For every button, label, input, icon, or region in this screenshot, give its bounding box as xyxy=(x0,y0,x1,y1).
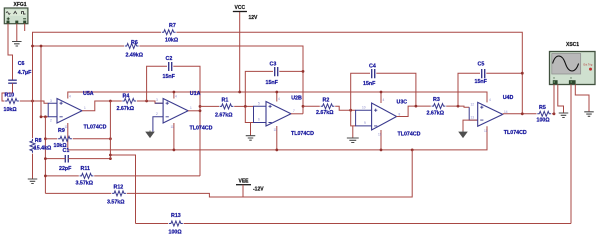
wire U3C inverting feed xyxy=(351,110,356,126)
wire R4 to U1A noninverting input xyxy=(137,101,163,103)
wire U4D inverting input to ground xyxy=(469,107,478,120)
svg-text:C1: C1 xyxy=(63,148,70,154)
svg-text:12V: 12V xyxy=(249,15,259,21)
svg-text:4.7µF: 4.7µF xyxy=(18,70,32,76)
wire U5A output node vertical xyxy=(109,101,111,159)
wire VEE distribution rail xyxy=(68,123,487,150)
svg-text:R3: R3 xyxy=(433,97,440,103)
wire R11 row xyxy=(45,175,78,177)
junction R4 row xyxy=(109,100,112,103)
svg-text:Ext Trig: Ext Trig xyxy=(584,62,593,66)
junction VCC rail xyxy=(173,91,176,94)
wire U4D output to R5 xyxy=(503,113,537,115)
svg-text:VCC: VCC xyxy=(235,5,246,11)
svg-text:R4: R4 xyxy=(123,94,130,100)
svg-text:C5: C5 xyxy=(478,61,485,67)
svg-text:2.67kΩ: 2.67kΩ xyxy=(427,111,445,117)
svg-text:2.67kΩ: 2.67kΩ xyxy=(117,106,135,112)
junction R5 right xyxy=(553,112,556,115)
junction C2 left xyxy=(145,100,148,103)
op-amp U5A xyxy=(57,99,82,124)
svg-text:TL074CD: TL074CD xyxy=(291,131,314,137)
junction U4D output xyxy=(521,112,524,115)
resistor R1 xyxy=(220,104,234,109)
svg-text:2.67kΩ: 2.67kΩ xyxy=(316,110,334,116)
svg-text:U1A: U1A xyxy=(190,91,201,97)
svg-text:15nF: 15nF xyxy=(266,80,279,86)
svg-text:3: 3 xyxy=(156,98,158,102)
svg-text:100Ω: 100Ω xyxy=(537,118,551,124)
wire U5A output to R4 row xyxy=(82,101,122,111)
wire C6 to R10 xyxy=(2,83,13,101)
ground trident scope A xyxy=(559,113,569,118)
svg-text:7: 7 xyxy=(293,109,295,113)
svg-text:100Ω: 100Ω xyxy=(169,230,183,235)
svg-text:1: 1 xyxy=(84,106,86,110)
svg-text:15.4kΩ: 15.4kΩ xyxy=(34,145,52,151)
resistor R9 xyxy=(58,136,72,141)
svg-text:U4D: U4D xyxy=(503,95,514,101)
ground trident below U2B xyxy=(250,123,252,136)
svg-text:2: 2 xyxy=(50,119,52,123)
svg-text:13: 13 xyxy=(471,115,475,119)
svg-text:3: 3 xyxy=(50,99,52,103)
svg-text:11: 11 xyxy=(171,125,175,129)
resistor R7 xyxy=(162,30,176,35)
junction rail2 left xyxy=(31,45,34,48)
wire XFG1 minus terminal stub xyxy=(24,24,26,32)
wire R10 to U5A noninverting input xyxy=(20,101,49,103)
svg-text:15nF: 15nF xyxy=(163,74,176,80)
svg-text:4: 4 xyxy=(383,98,385,102)
wire scope channel B ground xyxy=(575,85,589,112)
junction C5 left xyxy=(457,105,460,108)
op-amp U1A xyxy=(163,99,188,124)
ground trident below U3C xyxy=(352,126,354,138)
junction R9 row xyxy=(44,137,47,140)
wire inverting node vertical xyxy=(44,117,46,194)
wire R3 to U4D xyxy=(446,106,469,107)
resistor R3 xyxy=(432,104,446,109)
svg-text:3.57kΩ: 3.57kΩ xyxy=(107,199,125,205)
svg-text:R13: R13 xyxy=(171,213,181,219)
ground arrow below U4D xyxy=(459,131,467,138)
wire C4 branch xyxy=(351,73,370,110)
wire U3C output to R3 row xyxy=(397,106,431,116)
junction C3 left xyxy=(244,105,247,108)
junction C4 left xyxy=(349,109,352,112)
junction U1A output xyxy=(199,109,202,112)
svg-text:15nF: 15nF xyxy=(363,81,376,87)
function generator XFG1 body xyxy=(4,8,28,24)
svg-text:R9: R9 xyxy=(58,128,65,134)
svg-text:U5A: U5A xyxy=(83,91,94,97)
wire U1A output xyxy=(188,110,200,112)
wire U3C power pin 11 xyxy=(380,130,382,150)
junction R1 row start xyxy=(199,105,202,108)
wire XFG1 plus terminal to C6 xyxy=(8,24,13,81)
wire R12 row xyxy=(45,192,111,194)
op-amp U3C xyxy=(372,103,397,130)
svg-text:10kΩ: 10kΩ xyxy=(165,38,179,44)
svg-text:15nF: 15nF xyxy=(475,79,488,85)
svg-text:C4: C4 xyxy=(369,63,376,69)
svg-text:R8: R8 xyxy=(35,138,42,144)
wire U2B power pin 11 xyxy=(276,126,278,150)
wire scope channel A ground xyxy=(558,85,564,114)
svg-text:TL074CD: TL074CD xyxy=(84,124,107,130)
power VCC symbol xyxy=(233,12,247,93)
wire C1 row xyxy=(45,158,65,160)
svg-text:R11: R11 xyxy=(81,166,90,172)
svg-text:U3C: U3C xyxy=(397,99,408,105)
resistor R5 xyxy=(537,111,551,116)
op-amp U2B xyxy=(266,102,291,127)
resistor R12 xyxy=(112,191,126,196)
wire scope channel B to R13 xyxy=(570,85,572,224)
svg-text:11: 11 xyxy=(274,128,278,132)
svg-text:C2: C2 xyxy=(166,56,173,62)
resistor R10 xyxy=(5,99,19,104)
svg-text:4: 4 xyxy=(175,94,177,98)
wire U1A power pin 4 xyxy=(173,92,175,99)
ground trident scope B xyxy=(584,112,594,117)
capacitor C3 xyxy=(275,67,278,76)
capacitor C4 xyxy=(372,69,375,78)
wire R1 to U2B xyxy=(234,105,253,107)
svg-text:11: 11 xyxy=(378,133,382,137)
capacitor C5 xyxy=(482,69,485,78)
svg-text:9: 9 xyxy=(364,121,366,125)
wire R9 row xyxy=(45,138,57,140)
wire XFG1 common terminal xyxy=(16,24,18,42)
wire scope channel A to R5 node xyxy=(553,85,555,114)
svg-text:R6: R6 xyxy=(131,40,138,46)
svg-text:TL074CD: TL074CD xyxy=(190,126,213,132)
svg-text:6: 6 xyxy=(258,118,260,122)
wire R6 feedback rail xyxy=(33,45,125,47)
resistor R11 xyxy=(80,173,94,178)
svg-text:10: 10 xyxy=(362,106,366,110)
junction C5 right xyxy=(521,72,524,75)
junction rail drop xyxy=(40,45,43,48)
wire R8 to ground xyxy=(32,154,34,179)
wire to R13 corner xyxy=(110,155,135,224)
junction C1 row xyxy=(44,157,47,160)
wire U1A inverting input to ground xyxy=(153,117,163,132)
svg-text:22pF: 22pF xyxy=(59,166,72,172)
svg-text:2: 2 xyxy=(156,112,158,116)
resistor R2 xyxy=(321,104,335,109)
wire VCC distribution rail xyxy=(68,92,487,102)
power VEE symbol xyxy=(236,184,251,186)
junction R10 node xyxy=(31,100,34,103)
svg-text:R2: R2 xyxy=(323,98,330,104)
wire U3C power pin 4 xyxy=(380,92,382,103)
svg-text:10kΩ: 10kΩ xyxy=(4,107,18,113)
svg-text:3.57kΩ: 3.57kΩ xyxy=(76,181,94,187)
wire U1A power pin 11 xyxy=(173,123,175,150)
ground arrow below U1A xyxy=(146,131,154,138)
svg-text:TL074CD: TL074CD xyxy=(398,132,421,138)
capacitor C6 xyxy=(8,80,17,83)
svg-text:2.49kΩ: 2.49kΩ xyxy=(126,52,144,58)
svg-text:4: 4 xyxy=(69,94,71,98)
oscilloscope XSC1 body xyxy=(550,52,596,85)
wire U2B output xyxy=(291,113,303,115)
ground below XFG1 xyxy=(12,42,21,47)
wire R8 top xyxy=(32,101,34,138)
junction C3 right xyxy=(302,70,305,73)
resistor R13 xyxy=(169,221,183,226)
wire R2 to U3C xyxy=(335,106,355,110)
junction U2B output xyxy=(302,105,305,108)
svg-text:12: 12 xyxy=(471,103,475,107)
junction C4 right xyxy=(415,105,418,108)
wire R2 row xyxy=(303,105,320,107)
svg-text:8: 8 xyxy=(399,113,401,117)
resistor R8 xyxy=(30,139,35,153)
svg-text:11: 11 xyxy=(484,129,488,133)
svg-text:2.67kΩ: 2.67kΩ xyxy=(215,113,233,119)
wire R1 row xyxy=(200,105,219,107)
junction VEE rail xyxy=(173,149,176,152)
wire R13 row xyxy=(136,223,169,225)
svg-text:R1: R1 xyxy=(222,98,229,104)
wire U2B inverting feed xyxy=(245,106,253,122)
wire rail1 to U5A inverting input xyxy=(41,46,48,117)
svg-text:R10: R10 xyxy=(5,92,15,98)
wire C5 branch xyxy=(458,73,480,106)
svg-text:5: 5 xyxy=(258,102,260,106)
svg-text:U2B: U2B xyxy=(291,96,302,102)
capacitor C2 xyxy=(169,62,172,71)
ground below R8 xyxy=(28,179,38,184)
svg-text:XFG1: XFG1 xyxy=(14,2,27,8)
wire R5 to scope xyxy=(552,113,554,115)
svg-text:XSC1: XSC1 xyxy=(566,42,579,48)
svg-text:R5: R5 xyxy=(539,105,546,111)
svg-text:C3: C3 xyxy=(270,62,277,68)
svg-text:R7: R7 xyxy=(169,23,176,29)
junction R11 row xyxy=(44,175,47,178)
svg-text:4: 4 xyxy=(489,98,491,102)
wire U2B power pin 4 xyxy=(276,92,278,102)
svg-text:C6: C6 xyxy=(18,61,25,67)
resistor R6 xyxy=(125,44,139,49)
svg-text:4: 4 xyxy=(278,97,280,101)
junction inverting row xyxy=(40,115,43,118)
svg-text:VEE: VEE xyxy=(239,179,250,185)
wire VEE stem xyxy=(242,185,244,197)
resistor R4 xyxy=(122,99,136,104)
junction H5 xyxy=(109,154,112,157)
wire C3 branch xyxy=(245,71,273,106)
svg-text:11: 11 xyxy=(65,125,69,129)
svg-text:-12V: -12V xyxy=(253,186,264,192)
wire C2 branch xyxy=(147,66,167,101)
svg-text:R12: R12 xyxy=(114,185,124,191)
op-amp U4D xyxy=(478,102,503,126)
capacitor C1 xyxy=(65,155,68,163)
svg-text:TL074CD: TL074CD xyxy=(504,130,527,136)
wire R7 feedback rail xyxy=(33,32,162,101)
svg-text:1: 1 xyxy=(190,106,192,110)
